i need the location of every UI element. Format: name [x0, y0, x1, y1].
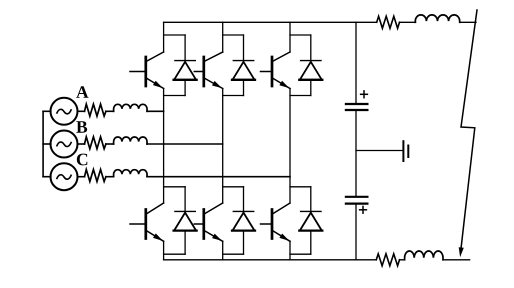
- wire: C2 to N rail: [355, 204, 357, 259]
- label phase C: [77, 154, 87, 166]
- wire: L1 to load arrow: [460, 21, 476, 23]
- wire: D1 anode to leg 1 midpoint: [164, 95, 186, 97]
- battery cell E (midpoint reference): [403, 141, 408, 161]
- igbt Q4: [130, 203, 164, 241]
- label phase B: [76, 121, 87, 133]
- igbt Q3: [261, 52, 291, 89]
- wire: leg 1 branch to diode D4: [164, 186, 186, 188]
- wire: positive dc rail (node P): [164, 21, 377, 23]
- wire: stub to source A: [43, 110, 51, 112]
- load arrow (lightning stroke to N rail): [459, 10, 477, 257]
- resistor Rb: [85, 137, 106, 149]
- label phase A: [76, 86, 88, 98]
- wire: leg 1 midpoint vertical (phase node): [163, 89, 165, 204]
- wire: D6 anode horizontal: [290, 253, 311, 255]
- wire: leg 1 branch to diode D1: [164, 34, 186, 36]
- wire: leg 3 emitter to N rail: [289, 241, 291, 259]
- wire: source neutral bus: [42, 111, 44, 176]
- wire: leg 3 collector drop from P rail: [289, 22, 291, 52]
- wire: leg 3 branch to diode D3: [290, 34, 311, 36]
- wire: leg 2 branch to diode D2: [223, 34, 244, 36]
- wire: Lb to bridge leg 2: [147, 143, 223, 145]
- wire: leg 2 branch to diode D5: [223, 186, 244, 188]
- capacitor C2: [346, 197, 368, 213]
- wire: P rail to C1: [355, 22, 357, 103]
- wire: L2 end stub: [443, 259, 470, 261]
- wire: Rb to Lb: [106, 143, 114, 145]
- igbt Q1: [130, 52, 164, 89]
- wire: leg 1 collector drop from P rail: [163, 22, 165, 52]
- wire: La to bridge leg 1: [147, 110, 164, 112]
- inductor La: [114, 104, 147, 111]
- ac source VB: [51, 131, 78, 158]
- wire: leg 2 midpoint vertical (phase node): [222, 89, 224, 204]
- resistor Ra: [85, 104, 106, 116]
- diode D6: [299, 187, 322, 254]
- wire: Ra to La: [106, 110, 114, 112]
- inductor Lb: [114, 137, 147, 144]
- wire: stub to source C: [43, 176, 51, 178]
- wire: source B to resistor: [78, 143, 85, 145]
- ac source VA: [51, 98, 78, 125]
- inductor Lc: [114, 170, 147, 177]
- wire: C1 to midpoint: [355, 111, 357, 196]
- wire: source C to resistor: [78, 176, 85, 178]
- wire: leg 1 emitter to N rail: [163, 241, 165, 259]
- diode D5: [232, 187, 255, 254]
- igbt Q2: [194, 52, 222, 89]
- wire: leg 2 emitter to N rail: [222, 241, 224, 259]
- inductor L2 (bottom output): [405, 251, 443, 260]
- wire: D5 anode horizontal: [223, 253, 244, 255]
- inductor L1 (top output): [415, 15, 459, 22]
- igbt Q5: [194, 203, 222, 241]
- wire: D2 anode to leg 2 midpoint: [223, 95, 244, 97]
- resistor R1 (top output): [377, 16, 400, 28]
- wire: leg 3 branch to diode D6: [290, 186, 311, 188]
- resistor Rc: [85, 170, 106, 182]
- diode D3: [299, 35, 322, 96]
- wire: Rc to Lc: [106, 176, 114, 178]
- diode D1: [174, 35, 197, 96]
- diode D2: [232, 35, 255, 96]
- wire: D4 anode horizontal: [164, 253, 186, 255]
- wire: leg 3 midpoint vertical (phase node): [289, 89, 291, 204]
- wire: source A to resistor: [78, 110, 85, 112]
- igbt Q6: [261, 203, 291, 241]
- wire: R2 to L2: [400, 259, 405, 261]
- ac source VC: [51, 163, 78, 190]
- wire: Lc to bridge leg 3: [147, 176, 290, 178]
- capacitor C1: [346, 91, 368, 110]
- wire: leg 2 collector drop from P rail: [222, 22, 224, 52]
- wire: D3 anode to leg 3 midpoint: [290, 95, 311, 97]
- resistor R2 (bottom output): [376, 254, 399, 266]
- wire: dc midpoint to reference cell: [356, 150, 403, 152]
- wire: negative dc rail (node N): [164, 259, 377, 261]
- wire: stub to source B: [43, 143, 51, 145]
- wire: R1 to L1: [400, 21, 416, 23]
- diode D4: [174, 187, 197, 254]
